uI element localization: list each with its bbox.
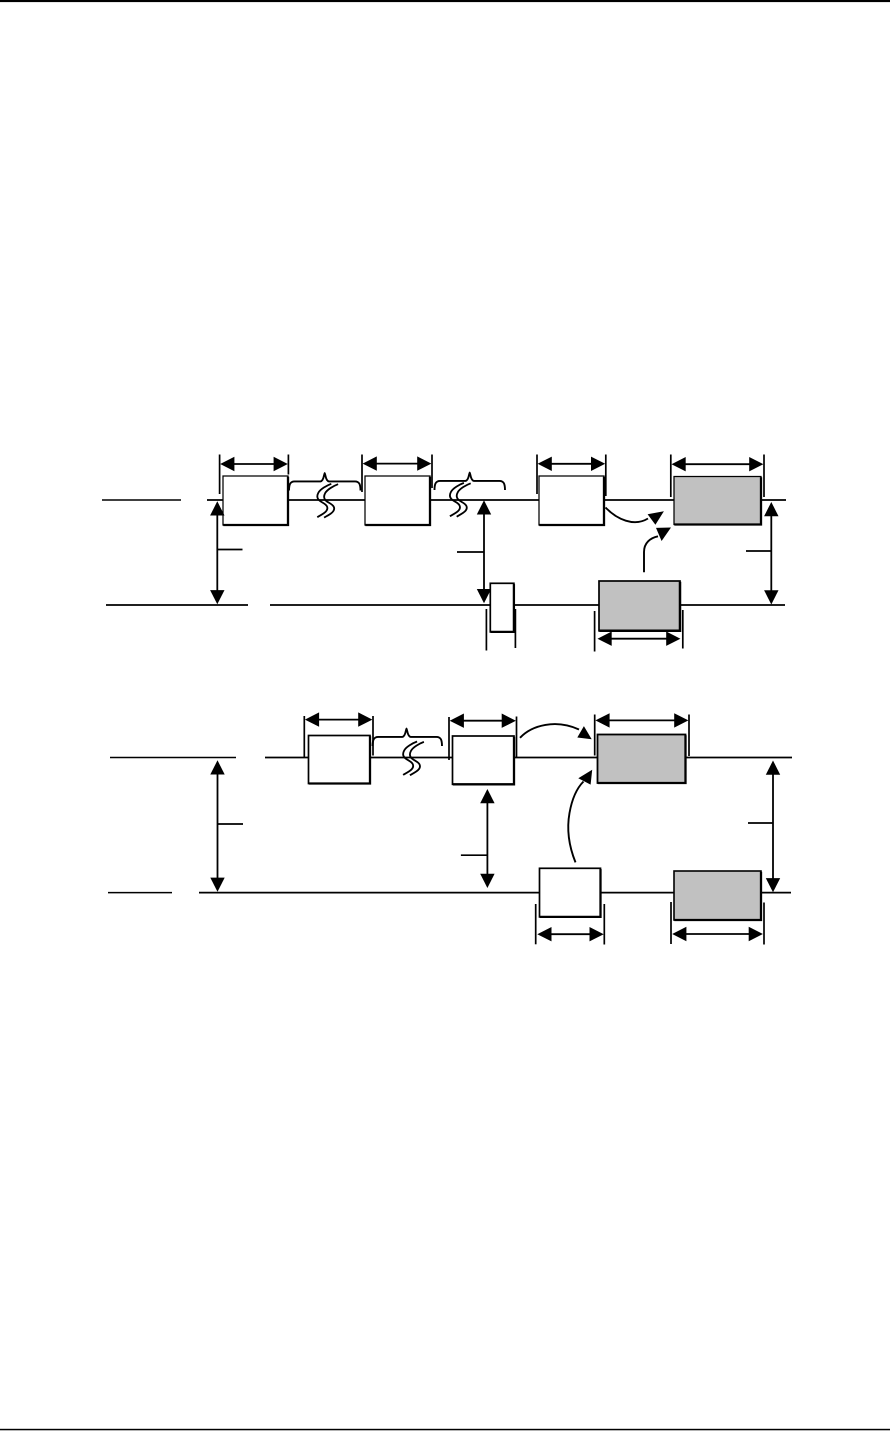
D2 box C shaded	[598, 735, 686, 784]
D2 box D width dimension	[535, 904, 537, 944]
D1 middle vertical dimension	[483, 514, 485, 591]
D1 right dimension label tick	[746, 550, 771, 552]
D2 middle dimension label tick	[461, 854, 488, 856]
header bar	[0, 0, 890, 2]
D2 box E width dimension	[670, 902, 672, 944]
D1 box 4 shaded	[674, 477, 761, 525]
D2 top timeline stub	[110, 757, 236, 759]
D1 break squiggle 1	[317, 484, 331, 517]
D1 box 2 width dimension	[361, 455, 363, 493]
D2 brace	[373, 729, 442, 746]
D1 brace 1	[289, 473, 361, 490]
D1 left vertical dimension	[216, 515, 218, 592]
D1 box 3 width dimension	[536, 455, 538, 495]
D2 box E shaded	[674, 871, 761, 920]
D1 middle dimension label tick	[457, 551, 484, 553]
D1 brace 2	[435, 473, 506, 490]
D1 top timeline stub	[102, 499, 181, 501]
D2 arrow box D to box C	[568, 782, 583, 863]
D2 box A width dimension	[303, 716, 305, 757]
D2 right dimension label tick	[748, 822, 773, 824]
D2 bottom timeline	[199, 892, 791, 894]
D1 small box on lower timeline	[490, 583, 514, 632]
D1 right vertical dimension	[770, 515, 772, 591]
D2 box D	[540, 868, 601, 917]
D2 bottom timeline stub	[108, 892, 172, 894]
footer rule	[0, 1429, 890, 1431]
D2 left vertical dimension	[217, 774, 219, 879]
D1 box 1 width dimension	[219, 455, 221, 495]
D1 box 1	[223, 476, 288, 525]
D2 break squiggle	[403, 742, 417, 775]
D2 arrow box B to box C	[520, 724, 579, 738]
D1 box 3	[539, 476, 604, 525]
D1 box 4 width dimension	[670, 455, 672, 498]
D1 left dimension label tick	[217, 549, 242, 551]
D1 box 2	[365, 476, 430, 525]
D1 arrow box3 to box4	[606, 508, 649, 523]
D1 break squiggle 2	[450, 483, 464, 516]
D1 lower shaded box width dimension	[594, 611, 596, 652]
D2 box B	[453, 736, 515, 784]
D2 left dimension label tick	[218, 823, 244, 825]
D1 bottom timeline left segment	[106, 604, 248, 606]
D2 middle vertical dimension	[486, 802, 488, 875]
D2 right vertical dimension	[772, 774, 774, 879]
D2 box A	[309, 736, 371, 784]
D1 small box right extension	[514, 609, 516, 648]
D2 box B width dimension	[448, 717, 450, 760]
D1 small box left extension	[485, 609, 487, 651]
D2 box C width dimension	[594, 715, 596, 756]
D1 bottom timeline right segment	[270, 604, 785, 606]
D1 arrow lower shaded box to box4	[644, 536, 658, 572]
D2 top timeline	[265, 757, 792, 759]
D1 top timeline	[207, 499, 786, 501]
D1 lower shaded box	[599, 581, 680, 631]
